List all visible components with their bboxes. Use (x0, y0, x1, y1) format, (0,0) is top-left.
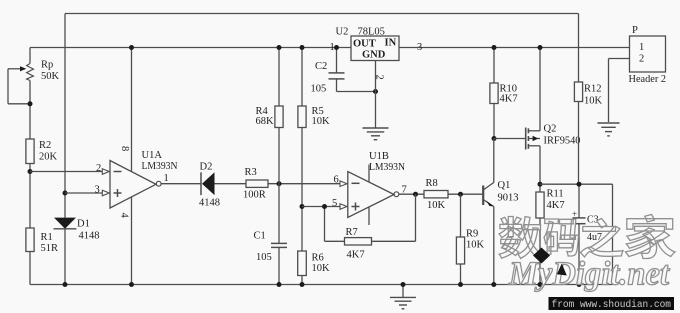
svg-text:D2: D2 (200, 161, 213, 172)
svg-text:from www.shoudian.com: from www.shoudian.com (552, 299, 672, 311)
capacitor C1 105 (254, 184, 288, 285)
wire header pin 2 to ground (609, 59, 630, 123)
svg-text:C1: C1 (254, 231, 266, 242)
svg-text:6: 6 (334, 175, 339, 186)
svg-text:R12: R12 (584, 84, 602, 95)
regulator U2 78L05 (336, 27, 400, 61)
capacitor C2 105 (311, 48, 376, 95)
wire ground bottom rail (30, 284, 613, 286)
ground on bottom rail (390, 285, 416, 309)
svg-text:3: 3 (417, 42, 422, 53)
svg-text:P: P (632, 25, 638, 36)
svg-text:D1: D1 (77, 219, 90, 230)
svg-text:10K: 10K (312, 263, 331, 274)
wire R3 to pin 6 of U1B (268, 175, 347, 187)
ground below U2 (363, 128, 389, 140)
diode D1 4148 (54, 218, 100, 285)
junction R7 to pin 5 wire (322, 204, 327, 209)
svg-text:U1B: U1B (369, 151, 389, 162)
junction R3 output / R4 / C1 (277, 181, 282, 186)
watermark source badge (549, 297, 675, 311)
resistor R6 10K (298, 251, 330, 285)
wire Q2 source to R11 node (539, 146, 541, 184)
junction pin 4 on ground rail (129, 282, 134, 287)
resistor R7 4K7 feedback (325, 194, 416, 260)
junction C2 / U2 GND (373, 89, 378, 94)
resistor R1 51R (26, 228, 58, 254)
transistor Q1 9013 (483, 139, 518, 285)
junction R11 on ground rail (538, 282, 543, 287)
op-amp U1A LM393N (110, 150, 178, 208)
wire R11 node across to right edge (540, 184, 613, 284)
watermark arrow logo (557, 264, 567, 276)
watermark diamond logo (533, 248, 550, 264)
junction C3 on ground rail (577, 282, 582, 287)
svg-text:1: 1 (330, 42, 335, 53)
junction R9 on ground rail (458, 282, 463, 287)
svg-text:4K7: 4K7 (347, 250, 365, 261)
svg-text:4: 4 (119, 213, 130, 219)
op-amp U1B LM393N (348, 151, 406, 225)
junction R10 / Q1 collector / Q2 gate (492, 136, 497, 141)
junction pin 8 on 5V rail (129, 45, 134, 50)
svg-text:LM393N: LM393N (369, 162, 405, 173)
wire battery rail (U2 IN side) to header pin 1 (399, 47, 630, 49)
svg-text:2: 2 (96, 163, 101, 174)
svg-text:R8: R8 (426, 178, 438, 189)
svg-text:R9: R9 (466, 229, 478, 240)
wire 5V rail (U2 OUT side) (30, 47, 351, 49)
watermark chinese characters (499, 215, 675, 259)
wire U1B output pin 7 (399, 185, 424, 196)
junction R10 top on battery rail (492, 45, 497, 50)
svg-text:105: 105 (256, 252, 272, 263)
wire left drop from top rail to D1 node (64, 14, 66, 218)
junction R2/R1 node to pin 2 (28, 169, 33, 174)
svg-text:R3: R3 (245, 167, 257, 178)
svg-text:Q1: Q1 (498, 180, 511, 191)
resistor R8 10K (424, 178, 483, 211)
junction R5/R6 divider to pin 5 (300, 204, 305, 209)
svg-text:10K: 10K (584, 96, 603, 107)
svg-text:MyDigit.net: MyDigit.net (508, 256, 670, 293)
resistor R5 10K (298, 48, 330, 252)
wire Q2 gate (494, 138, 526, 140)
svg-text:2: 2 (639, 54, 644, 65)
svg-text:3: 3 (95, 184, 100, 195)
svg-text:78L05: 78L05 (358, 27, 385, 38)
wire left divider column (29, 48, 31, 285)
wire Q2 drain (539, 48, 541, 131)
wire pin 5 of U1B (302, 198, 347, 210)
svg-text:10K: 10K (466, 240, 485, 251)
svg-text:Header 2: Header 2 (629, 74, 667, 85)
wire U1A output pin 1 (161, 173, 201, 184)
svg-text:IN: IN (385, 38, 397, 49)
svg-text:4K7: 4K7 (547, 200, 565, 211)
svg-text:U1A: U1A (142, 150, 163, 161)
svg-text:GND: GND (362, 50, 386, 61)
svg-text:9013: 9013 (498, 193, 519, 204)
resistor R4 68K (256, 48, 284, 184)
resistor R3 100R (243, 167, 268, 201)
junction R5 top on 5V rail (300, 45, 305, 50)
svg-text:5: 5 (332, 198, 337, 209)
junction Q1 emitter on ground rail (491, 282, 496, 287)
svg-text:4148: 4148 (79, 231, 100, 242)
svg-text:4K7: 4K7 (500, 94, 518, 105)
svg-text:51R: 51R (41, 243, 59, 254)
svg-text:4148: 4148 (199, 197, 220, 208)
svg-text:50K: 50K (41, 71, 60, 82)
wire pin 2 of U1A (30, 163, 109, 175)
potentiometer Rp 50K (8, 60, 60, 104)
capacitor C3 4u7 (572, 184, 602, 284)
svg-text:20K: 20K (39, 151, 58, 162)
junction C1 on ground rail (277, 282, 282, 287)
wire top supply rail (65, 13, 579, 15)
junction D1 anode / pin 3 (63, 191, 68, 196)
svg-text:C2: C2 (315, 61, 327, 72)
svg-text:IRF9540: IRF9540 (544, 136, 581, 147)
transistor Q2 IRF9540 (526, 124, 581, 150)
junction U2 pin 1 on 5V rail (330, 42, 340, 53)
svg-text:1: 1 (639, 42, 644, 53)
junction D1 cathode on ground rail (63, 282, 68, 287)
wire U1A pin 4 to ground (119, 197, 132, 285)
junction Rp wiper node (28, 101, 33, 106)
ground below header (598, 123, 620, 136)
resistor R10 4K7 (490, 48, 518, 139)
wire U2 pin 2 GND (374, 61, 385, 128)
svg-text:LM393N: LM393N (142, 161, 178, 172)
svg-text:100R: 100R (243, 190, 266, 201)
svg-text:10K: 10K (312, 116, 331, 127)
svg-text:+: + (572, 209, 577, 219)
svg-text:Rp: Rp (41, 60, 53, 71)
svg-text:68K: 68K (256, 116, 275, 127)
connector P Header 2 (629, 25, 667, 85)
junction R4 top on 5V rail (277, 45, 282, 50)
resistor R2 20K (26, 139, 58, 164)
svg-text:7: 7 (402, 185, 407, 196)
junction output / R7 feedback (413, 192, 418, 197)
wire right drop from top rail to R12 (578, 14, 580, 83)
svg-text:OUT: OUT (353, 39, 376, 50)
svg-text:Q2: Q2 (544, 124, 557, 135)
resistor R9 10K (456, 194, 484, 284)
svg-text:R2: R2 (39, 140, 51, 151)
junction R6 on ground rail (300, 282, 305, 287)
svg-text:R11: R11 (547, 189, 564, 200)
label pin 3 of U2 (417, 42, 422, 53)
svg-text:R1: R1 (41, 232, 53, 243)
junction Q2 drain on battery rail (538, 45, 543, 50)
junction Q2 source / R11 / R12 node (538, 182, 543, 187)
svg-text:U2: U2 (336, 27, 349, 38)
junction C3 node (577, 182, 582, 187)
wire U1A pin 8 V+ (119, 48, 132, 172)
resistor R11 4K7 (536, 184, 565, 284)
junction ground stub on rail (401, 282, 406, 287)
junction R8 / R9 node (458, 192, 463, 197)
svg-text:2: 2 (374, 75, 385, 80)
svg-text:105: 105 (311, 83, 327, 94)
svg-text:R6: R6 (312, 252, 324, 263)
svg-text:R7: R7 (346, 227, 358, 238)
resistor R12 10K (574, 82, 602, 184)
svg-text:1: 1 (164, 173, 169, 184)
wire pin 3 of U1A (65, 184, 109, 196)
svg-text:8: 8 (119, 146, 130, 151)
svg-text:10K: 10K (427, 200, 446, 211)
diode D2 4148 (199, 161, 246, 208)
